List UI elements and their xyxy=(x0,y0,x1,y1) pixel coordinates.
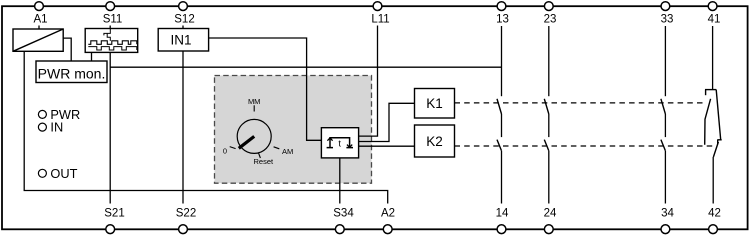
svg-text:S34: S34 xyxy=(333,208,354,220)
wire A1 terminal to power box xyxy=(38,26,40,30)
PWR mon. box xyxy=(36,61,107,83)
svg-text:K1: K1 xyxy=(426,96,443,111)
rising edge arrowhead xyxy=(327,138,332,141)
dial pointer xyxy=(239,136,254,148)
svg-text:t: t xyxy=(338,138,341,149)
timer symbol xyxy=(327,138,353,148)
svg-text:0: 0 xyxy=(223,146,227,155)
clock rail S11 to contact 13 column xyxy=(110,66,501,68)
LED PWR xyxy=(38,107,80,122)
contact path 33-34 xyxy=(661,26,666,204)
svg-text:PWR mon.: PWR mon. xyxy=(38,65,106,81)
wire timer output to K2 xyxy=(359,145,415,147)
terminal 24 xyxy=(544,225,553,234)
terminal 14 xyxy=(497,225,506,234)
NC contact path 41-42 xyxy=(705,26,722,204)
contact path 13-14 xyxy=(497,26,502,204)
svg-text:S12: S12 xyxy=(174,14,194,26)
gray function panel (dashed) xyxy=(215,76,372,184)
wire S11 box to PWR mon. xyxy=(91,52,93,61)
falling edge arrowhead xyxy=(347,145,352,148)
tick Reset xyxy=(258,152,260,158)
terminal 34 xyxy=(661,225,670,234)
terminal 13 xyxy=(497,2,506,11)
terminal S34 xyxy=(335,225,344,234)
wire timer to S34 xyxy=(339,158,341,204)
tick MM xyxy=(253,105,255,111)
svg-text:OUT: OUT xyxy=(50,166,77,181)
wire IN1 down to S22 xyxy=(182,51,184,204)
terminal S22 xyxy=(179,225,188,234)
svg-text:IN: IN xyxy=(50,120,63,135)
relay K2 xyxy=(415,125,455,157)
terminal 41 xyxy=(708,2,717,11)
terminal A2 xyxy=(383,225,392,234)
terminal A1 xyxy=(35,2,44,11)
tick 0 xyxy=(230,147,236,149)
wire S12 terminal into IN1 box xyxy=(182,26,184,29)
svg-text:24: 24 xyxy=(544,208,557,220)
wire power box to PWR mon. xyxy=(63,38,71,61)
svg-text:42: 42 xyxy=(708,208,721,220)
terminal 42 xyxy=(709,225,718,234)
terminal S12 xyxy=(179,2,188,11)
timer box U1 xyxy=(321,128,358,158)
LED OUT xyxy=(38,166,77,181)
seat bar upper xyxy=(705,89,716,91)
tick AM xyxy=(274,147,280,149)
svg-text:23: 23 xyxy=(544,14,557,26)
mechanical link K1 (dashed) xyxy=(455,102,707,104)
svg-text:A2: A2 xyxy=(381,208,395,220)
pulse waveform 2 xyxy=(88,47,137,50)
wire L11 down to timer xyxy=(359,26,378,137)
svg-text:13: 13 xyxy=(496,14,509,26)
contact path 23-24 xyxy=(544,26,549,204)
seat bar lower xyxy=(717,139,721,141)
blade upper xyxy=(705,99,711,145)
input box IN1 xyxy=(158,29,208,52)
relay K1 xyxy=(415,89,455,119)
staircase lead inside S11 box xyxy=(104,29,110,41)
wire S11 terminal into clock box xyxy=(109,26,111,29)
pulse waveform 1 xyxy=(88,41,137,45)
wire timer output to K1 xyxy=(359,103,415,141)
wire A1 return: power box down and across to A2 xyxy=(24,51,388,203)
clock output box S11 xyxy=(85,29,138,53)
svg-text:MM: MM xyxy=(248,97,261,106)
wire S11 box down to S21 xyxy=(109,52,111,203)
LED IN xyxy=(38,120,63,135)
svg-text:33: 33 xyxy=(661,14,674,26)
rotary dial xyxy=(223,97,293,166)
power supply box A1 xyxy=(13,29,63,51)
wire IN1 output to timer xyxy=(209,38,322,140)
svg-text:S21: S21 xyxy=(104,208,124,220)
svg-text:S11: S11 xyxy=(103,14,123,26)
mechanical link K2 (dashed) xyxy=(455,145,713,147)
connecting blade right xyxy=(716,90,721,140)
terminal L11 xyxy=(373,2,382,11)
svg-text:L11: L11 xyxy=(371,14,389,26)
svg-text:A1: A1 xyxy=(33,14,47,26)
svg-text:41: 41 xyxy=(708,14,721,26)
svg-text:K2: K2 xyxy=(426,134,443,149)
svg-text:14: 14 xyxy=(496,208,509,220)
svg-text:IN1: IN1 xyxy=(170,32,191,47)
terminal 23 xyxy=(544,2,553,11)
terminal S11 xyxy=(106,2,115,11)
terminal S21 xyxy=(106,225,115,234)
svg-text:AM: AM xyxy=(282,147,293,156)
terminal 33 xyxy=(661,2,670,11)
blade lower xyxy=(713,142,718,157)
svg-text:S22: S22 xyxy=(176,208,196,220)
svg-text:34: 34 xyxy=(661,208,674,220)
svg-text:Reset: Reset xyxy=(254,157,275,166)
